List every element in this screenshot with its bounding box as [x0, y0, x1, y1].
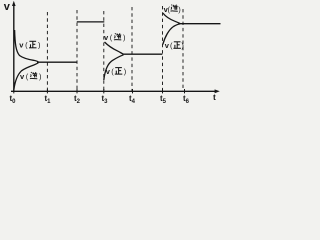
equilibrium line 4 — [179, 23, 221, 25]
dashed line t3 — [103, 11, 105, 91]
y-axis arrow — [12, 1, 16, 6]
curve v(ni) section4 — [163, 13, 180, 24]
dashed line t5 — [162, 6, 164, 91]
curve v(zheng) section3 — [104, 55, 124, 80]
dashed line t2 — [76, 10, 78, 91]
curve v(zheng) section4 — [163, 24, 180, 45]
curve v(ni) section1 — [14, 63, 39, 90]
tick t1 — [46, 89, 48, 93]
curve v(ni) section3 — [105, 42, 124, 54]
label v(ni) 1 — [20, 72, 42, 81]
svg-text:v: v — [4, 1, 11, 13]
label v(ni) 2 — [104, 33, 126, 42]
dashed line t1 — [46, 12, 48, 91]
curve v(zheng) section1 — [15, 30, 39, 62]
label v(ni) 3 — [164, 5, 182, 15]
x-axis — [11, 90, 217, 92]
label v(zheng) 3 — [165, 41, 185, 50]
y-axis — [13, 4, 15, 92]
tick t4 — [132, 89, 134, 93]
label v(zheng) 2 — [106, 67, 127, 76]
dashed line t4 — [131, 7, 133, 91]
x-axis arrow — [215, 89, 220, 93]
equilibrium line 1 — [37, 61, 77, 63]
label v(zheng) 1 — [19, 41, 41, 50]
tick t6 — [184, 89, 186, 93]
tick t5 — [162, 89, 164, 93]
tick t2 — [76, 89, 78, 93]
equilibrium line 2 (high) — [77, 21, 105, 23]
svg-text:t: t — [213, 92, 216, 102]
dashed line t6 — [182, 9, 184, 91]
equilibrium line 3 — [123, 53, 163, 55]
tick t3 — [103, 89, 105, 93]
tick t0 — [13, 89, 15, 93]
